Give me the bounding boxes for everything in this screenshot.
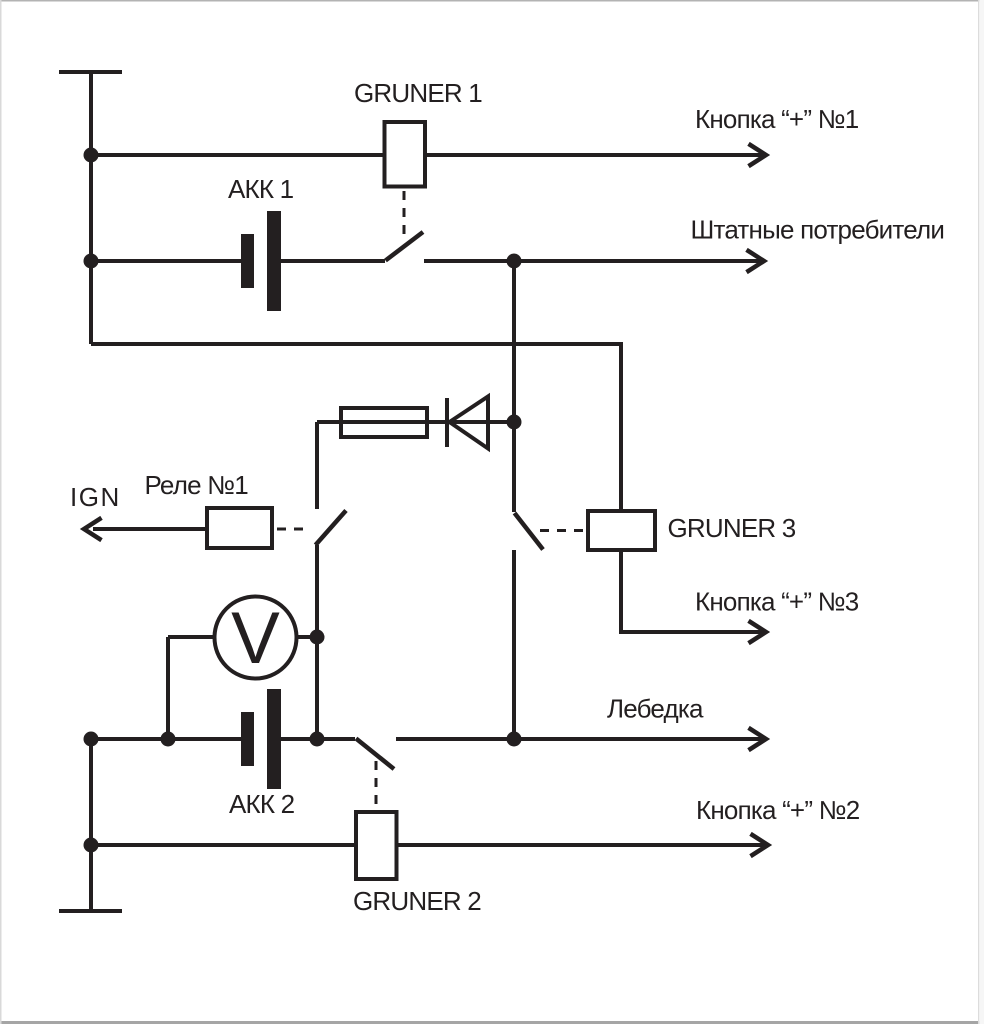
- svg-text:Лебедка: Лебедка: [607, 694, 704, 724]
- svg-text:АКК 2: АКК 2: [229, 789, 295, 819]
- svg-text:GRUNER 2: GRUNER 2: [353, 886, 481, 916]
- svg-text:Реле №1: Реле №1: [145, 470, 249, 500]
- svg-text:V: V: [231, 598, 280, 679]
- svg-text:Кнопка “+” №2: Кнопка “+” №2: [696, 795, 860, 825]
- svg-text:IGN: IGN: [70, 482, 121, 512]
- svg-text:GRUNER 3: GRUNER 3: [668, 513, 796, 543]
- svg-text:Кнопка “+” №3: Кнопка “+” №3: [695, 587, 859, 617]
- svg-text:АКК 1: АКК 1: [228, 174, 294, 204]
- svg-text:Кнопка “+” №1: Кнопка “+” №1: [695, 104, 859, 134]
- svg-text:Штатные потребители: Штатные потребители: [691, 215, 945, 245]
- svg-text:GRUNER 1: GRUNER 1: [354, 78, 482, 108]
